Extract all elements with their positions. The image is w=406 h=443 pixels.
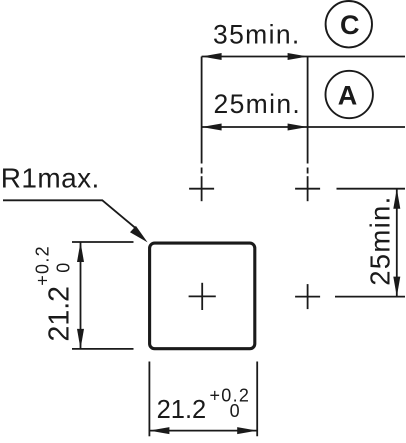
extension line bottom dim left: [148, 362, 150, 437]
arrowhead R1 leader: [130, 226, 148, 243]
centerline dash left column: [201, 168, 203, 174]
arrowhead top of 21.2 vertical: [77, 242, 84, 262]
datum circle C: [326, 1, 372, 47]
arrowhead left of 21.2 bottom: [149, 427, 169, 434]
svg-text:+0.2: +0.2: [33, 245, 53, 286]
arrowhead bottom of 25min vertical: [393, 277, 400, 297]
dimension line 35min: [202, 56, 405, 58]
svg-text:21.2: 21.2: [157, 396, 207, 424]
extension line left dim top: [72, 241, 134, 243]
arrowhead right of 25min: [288, 124, 308, 131]
svg-text:0: 0: [54, 263, 74, 273]
center cross top-left: [189, 176, 214, 201]
extension line left column: [201, 57, 203, 164]
svg-text:25min.: 25min.: [214, 89, 302, 119]
arrowhead left of 35min: [202, 53, 222, 60]
svg-text:35min.: 35min.: [213, 20, 301, 50]
extension line bottom dim right: [256, 362, 258, 437]
svg-text:0: 0: [230, 401, 240, 421]
arrowhead right of 21.2 bottom: [237, 427, 257, 434]
extension line right column: [307, 57, 309, 164]
leader line R1: [3, 200, 136, 228]
center cross mid-right: [295, 284, 320, 309]
arrowhead top of 25min vertical: [393, 189, 400, 209]
svg-text:R1max.: R1max.: [1, 162, 100, 193]
svg-text:A: A: [338, 80, 358, 110]
extension line left dim bottom: [72, 348, 134, 350]
arrowhead left of 25min: [202, 124, 222, 131]
arrowhead bottom of 21.2 vertical: [77, 329, 84, 349]
center cross of square: [189, 283, 216, 310]
svg-text:21.2: 21.2: [44, 286, 76, 341]
svg-text:25min.: 25min.: [364, 195, 395, 285]
datum circle A: [326, 71, 373, 118]
dimension line 25min horizontal: [202, 126, 405, 128]
dimension line 21.2 bottom: [149, 430, 257, 432]
square cutout: [150, 243, 255, 349]
svg-text:C: C: [340, 10, 360, 40]
center cross top-right: [295, 176, 320, 201]
dimension line 21.2 vertical: [80, 242, 82, 349]
extension line right dim top: [337, 188, 406, 190]
dimension line 25min vertical: [396, 189, 398, 297]
centerline dash right column: [307, 168, 309, 174]
arrowhead right of 35min: [288, 53, 308, 60]
extension line right dim bottom: [335, 296, 405, 298]
